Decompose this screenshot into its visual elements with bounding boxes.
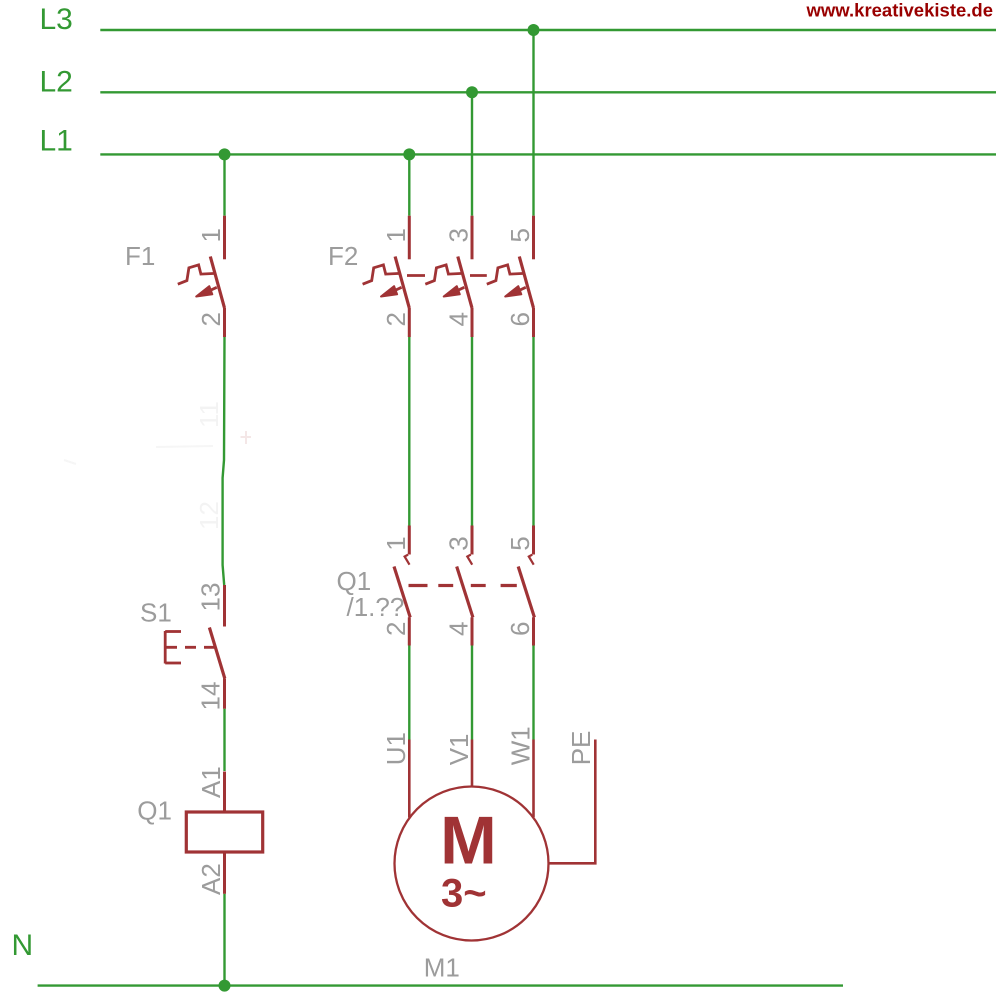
junction N/Q1 xyxy=(219,980,231,992)
svg-text:www.kreativekiste.de: www.kreativekiste.de xyxy=(806,0,993,21)
wire F2.2 to Q1.1 xyxy=(408,337,410,526)
svg-text:6: 6 xyxy=(505,622,535,636)
svg-text:3: 3 xyxy=(444,536,474,550)
wire Q1 coil to N xyxy=(223,894,225,986)
svg-text:M: M xyxy=(440,803,497,879)
wire F1 to S1 xyxy=(223,337,225,585)
svg-text:1: 1 xyxy=(381,536,411,550)
junction L2/F2 xyxy=(466,86,478,98)
svg-text:12: 12 xyxy=(194,501,224,530)
breaker F2 link dashes xyxy=(407,274,487,277)
svg-text:2: 2 xyxy=(381,312,411,326)
breaker F1 xyxy=(178,216,225,337)
svg-text:Q1: Q1 xyxy=(137,796,172,826)
wire S1 to Q1 coil xyxy=(223,709,225,771)
wire L2 xyxy=(100,91,996,93)
svg-text:1: 1 xyxy=(196,228,226,242)
breaker F2 pole 3 xyxy=(487,216,534,337)
svg-text:V1: V1 xyxy=(444,733,474,765)
svg-text:M1: M1 xyxy=(424,953,460,983)
wire N xyxy=(38,984,843,986)
svg-text:L2: L2 xyxy=(40,66,73,99)
svg-text:N: N xyxy=(12,929,34,962)
wire L2 to F2 pole 2 xyxy=(471,92,473,215)
wire F2.4 to Q1.3 xyxy=(471,337,473,526)
contactor coil Q1 xyxy=(186,772,262,894)
ghost artifacts (faded removed symbol) xyxy=(194,401,224,530)
svg-text:11: 11 xyxy=(194,401,224,428)
svg-text:F1: F1 xyxy=(125,241,155,271)
wire F2.6 to Q1.5 xyxy=(532,337,534,526)
svg-text:L1: L1 xyxy=(40,125,73,158)
motor PE wire xyxy=(549,740,595,864)
wire Q1.2 to motor U1 xyxy=(408,646,410,740)
svg-text:2: 2 xyxy=(196,312,226,326)
breaker F2 pole 2 xyxy=(425,216,472,337)
svg-text:3~: 3~ xyxy=(441,872,487,916)
wire Q1.6 to motor W1 xyxy=(532,646,534,740)
svg-text:A1: A1 xyxy=(196,766,226,798)
wire L1 xyxy=(100,153,996,155)
breaker F2 pole 1 xyxy=(363,216,410,337)
svg-text:1: 1 xyxy=(381,228,411,242)
svg-text:A2: A2 xyxy=(196,863,226,895)
contact link dashes xyxy=(409,584,517,587)
svg-text:U1: U1 xyxy=(381,732,411,765)
contactor contact Q1 pole 2 xyxy=(457,526,473,646)
svg-text:2: 2 xyxy=(381,622,411,636)
svg-text:S1: S1 xyxy=(140,597,172,627)
svg-text:W1: W1 xyxy=(505,726,535,765)
svg-text:6: 6 xyxy=(505,312,535,326)
svg-text:3: 3 xyxy=(444,228,474,242)
junction L1/F1 xyxy=(219,148,231,160)
svg-text:5: 5 xyxy=(505,536,535,550)
svg-text:5: 5 xyxy=(505,228,535,242)
svg-text:PE: PE xyxy=(566,731,596,766)
svg-text:/1.??: /1.?? xyxy=(347,592,405,622)
wire L1 to F2 pole 1 xyxy=(408,154,410,215)
contactor contact Q1 pole 3 xyxy=(518,526,534,646)
switch S1 xyxy=(165,585,225,709)
wire L3 xyxy=(100,29,996,31)
svg-text:14: 14 xyxy=(196,682,226,711)
wire Q1.4 to motor V1 xyxy=(471,646,473,740)
svg-text:L3: L3 xyxy=(40,3,73,36)
wire L3 to F2 pole 3 xyxy=(532,30,534,216)
junction L1/F2 xyxy=(403,148,415,160)
wire L1 to F1 xyxy=(223,154,225,215)
junction L3/F2 xyxy=(528,24,540,36)
motor M1 xyxy=(395,740,549,941)
svg-text:13: 13 xyxy=(196,583,226,612)
svg-text:F2: F2 xyxy=(328,241,358,271)
svg-text:4: 4 xyxy=(444,622,474,636)
contactor contact Q1 pole 1 xyxy=(394,526,410,646)
svg-text:4: 4 xyxy=(444,312,474,326)
